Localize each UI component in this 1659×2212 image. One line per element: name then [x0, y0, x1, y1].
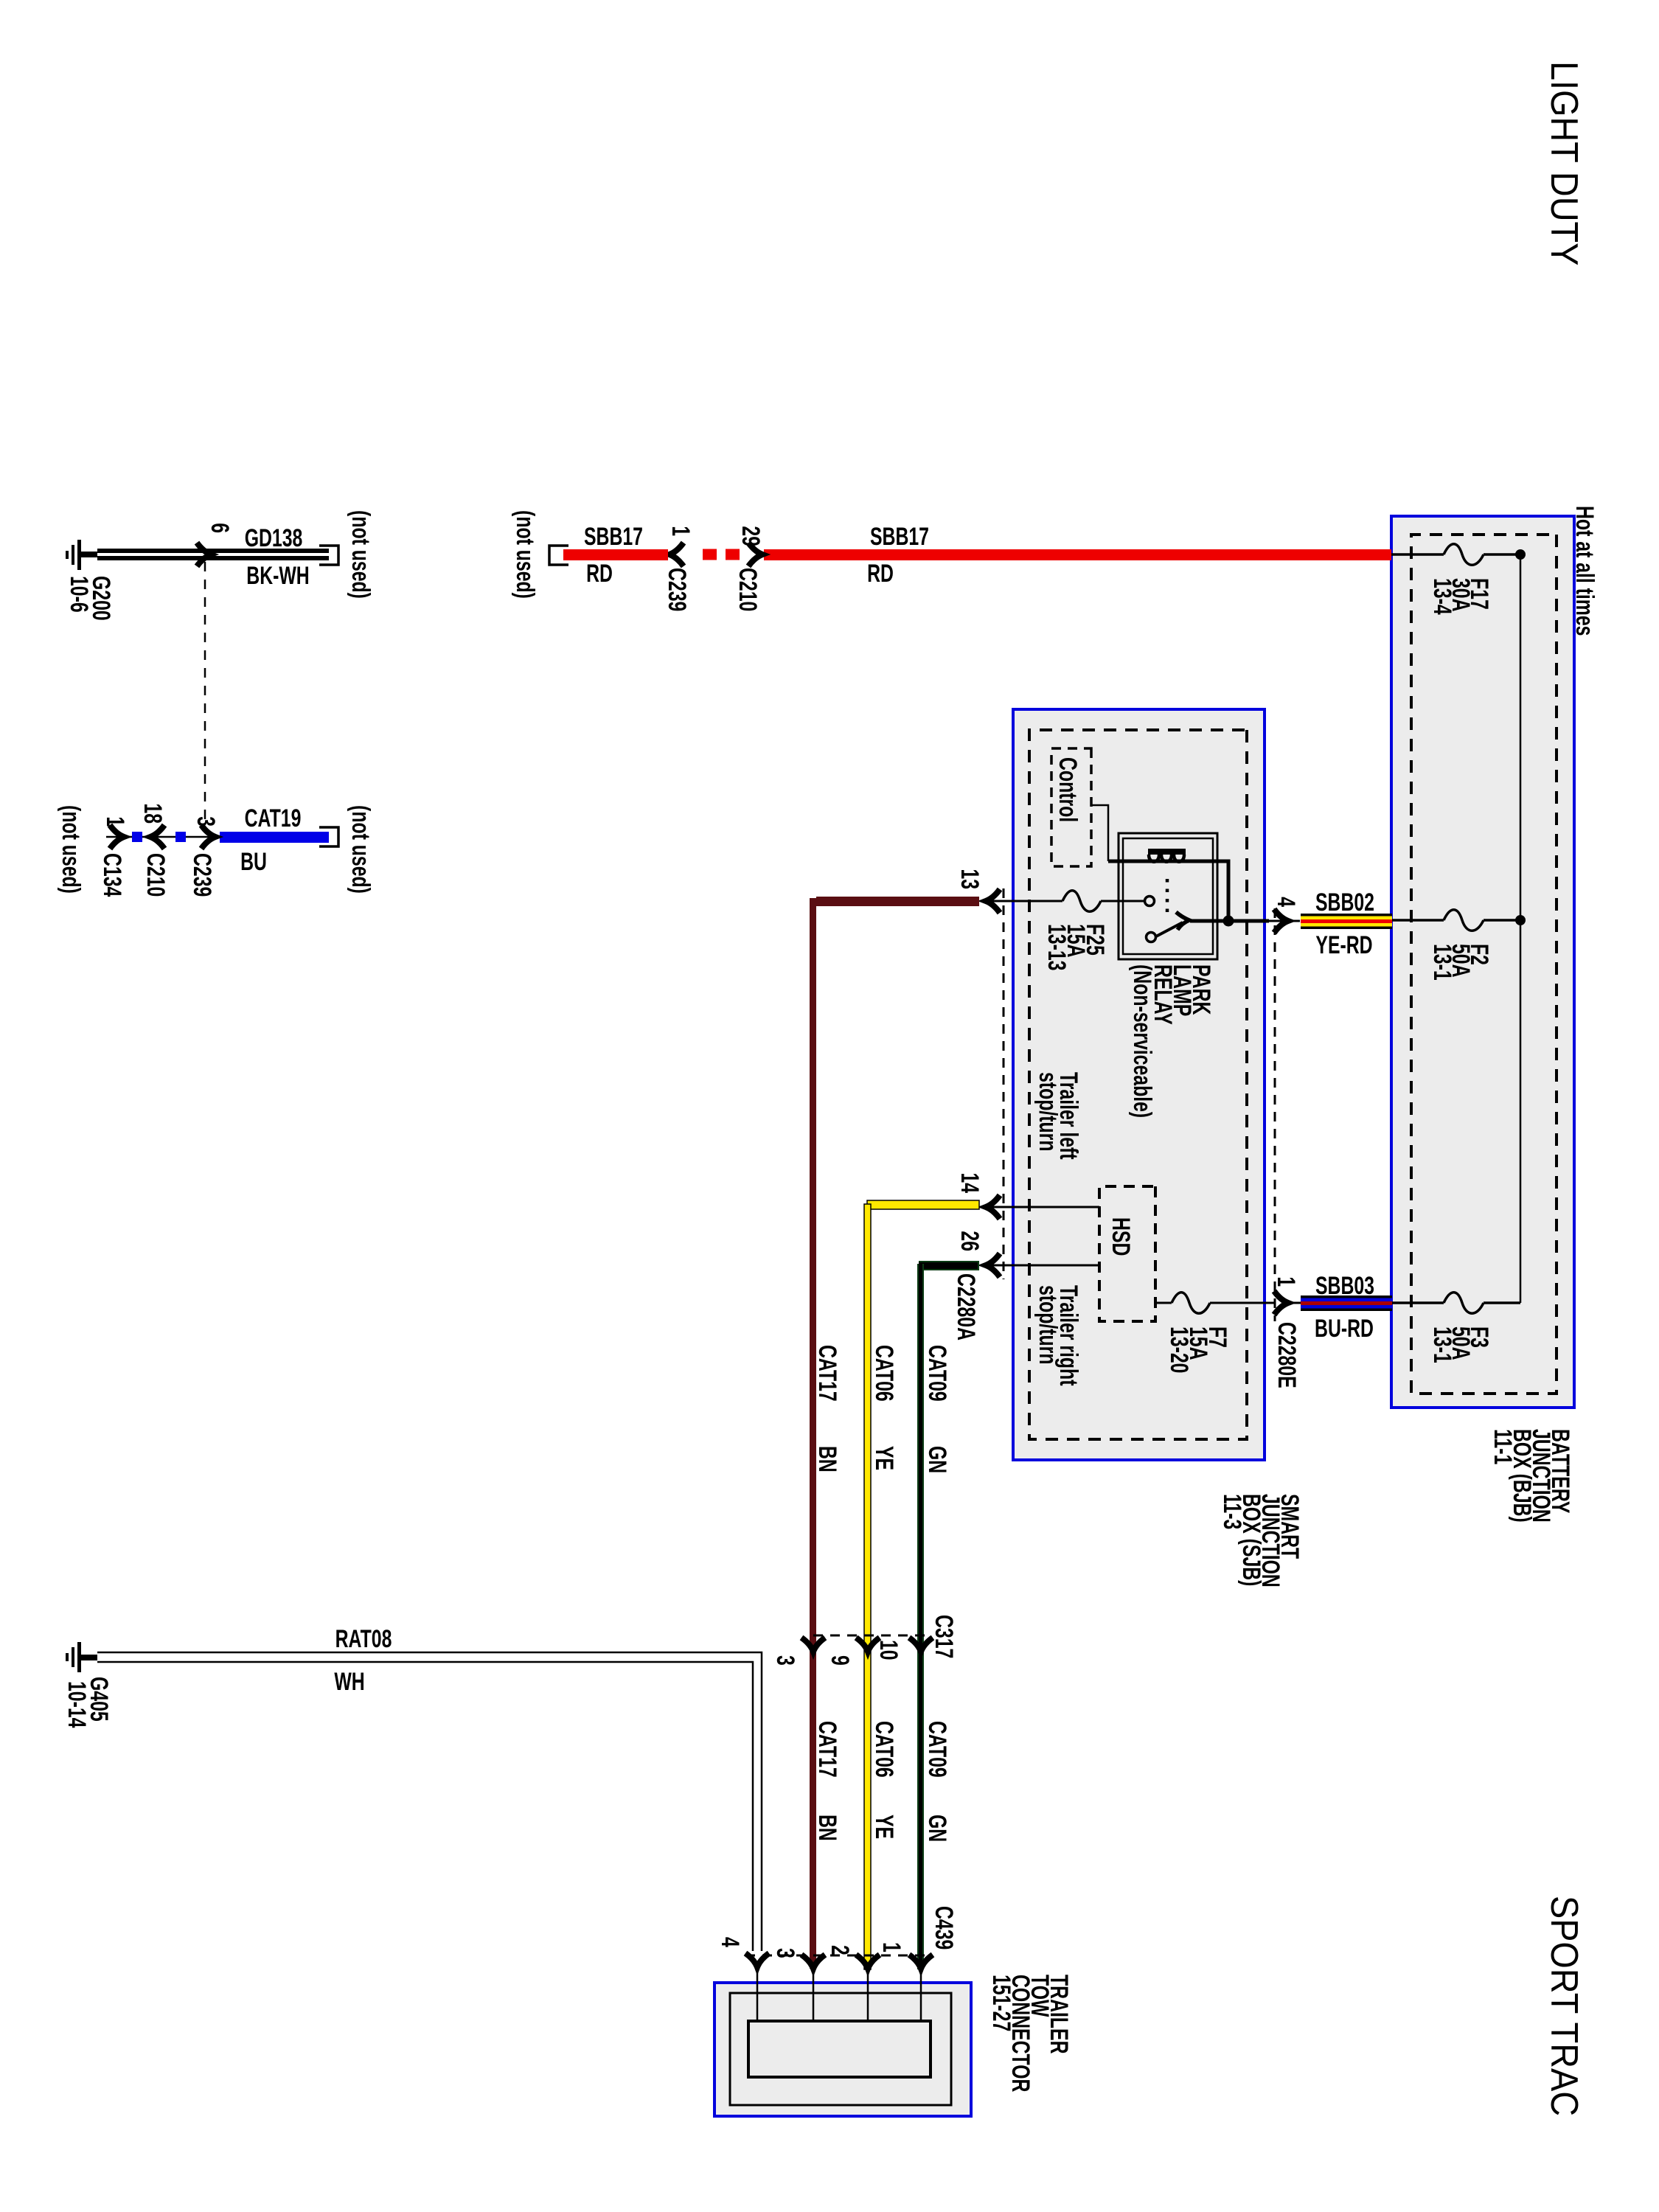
connector C239 arrow pin 3: [188, 816, 220, 897]
svg-text:13-13: 13-13: [1043, 924, 1071, 970]
node bus F17: [1515, 549, 1526, 560]
svg-text:3: 3: [771, 1948, 799, 1958]
connector C134 arrow pin 1: [57, 805, 129, 897]
svg-text:2: 2: [826, 1945, 854, 1955]
svg-text:C239: C239: [188, 853, 216, 897]
svg-text:CAT17: CAT17: [813, 1721, 841, 1778]
svg-text:C439: C439: [930, 1906, 958, 1950]
fuse F17 30A: [1391, 544, 1520, 615]
connector C2280A dashed: [952, 888, 1004, 1340]
svg-text:26: 26: [956, 1231, 984, 1251]
wire pin 14: [987, 1206, 1099, 1208]
wire CAT19 thin lower: [106, 836, 220, 838]
connector not used red end: [511, 510, 568, 599]
connector not used GD138 end: [319, 510, 375, 599]
svg-text:1: 1: [877, 1942, 905, 1952]
pin 14 arrow: [956, 1172, 1000, 1219]
wire bus inside BJB: [1520, 554, 1522, 1303]
HSD box: [1099, 1186, 1155, 1321]
svg-text:CAT06: CAT06: [870, 1345, 898, 1402]
fuse F25 15A: [987, 891, 1144, 971]
label PARK LAMP RELAY: [1128, 964, 1215, 1118]
svg-text:YE: YE: [870, 1815, 898, 1839]
wire into connector pin 3: [813, 1969, 815, 2021]
svg-text:CAT19: CAT19: [245, 804, 302, 832]
svg-text:stop/turn: stop/turn: [1034, 1072, 1062, 1151]
svg-text:C210: C210: [734, 568, 762, 611]
C439 arrow pin 2: [826, 1945, 880, 1969]
wire relay output: [1227, 919, 1269, 923]
svg-text:11-1: 11-1: [1489, 1429, 1517, 1464]
node relay output junction: [1223, 916, 1234, 927]
svg-text:C134: C134: [98, 853, 126, 897]
fuse F2 50A: [1391, 910, 1520, 981]
label Trailer right stop/turn: [1034, 1285, 1082, 1386]
svg-text:BU: BU: [240, 848, 267, 876]
pin 4 arrow RAT08: [716, 1937, 769, 1967]
connector C210 arrow pin 29: [734, 526, 765, 611]
node bus F2: [1515, 915, 1526, 925]
C439 arrow pin 1: [877, 1942, 933, 1969]
C317 arrow pin 3: [771, 1638, 825, 1666]
wire SBB17 RD lower segment: [563, 523, 668, 588]
fuse F3 50A: [1391, 1293, 1520, 1363]
splice arrow pin 6 on GD138: [197, 523, 234, 566]
label TRAILER TOW CONNECTOR 151-27: [987, 1975, 1073, 2092]
ground G405: [63, 1642, 113, 1728]
svg-text:BU-RD: BU-RD: [1315, 1315, 1374, 1343]
battery junction box BJB: [1391, 516, 1574, 1408]
relay park lamp box: [1119, 833, 1217, 959]
connector C210 arrow pin 18: [139, 803, 170, 897]
svg-text:CAT09: CAT09: [923, 1345, 951, 1402]
svg-text:1: 1: [101, 816, 129, 827]
svg-text:CAT06: CAT06: [870, 1721, 898, 1778]
svg-text:C317: C317: [930, 1615, 958, 1658]
svg-text:BN: BN: [813, 1446, 841, 1472]
pin 1 arrow SBB03: [1272, 1276, 1300, 1315]
svg-text:CAT17: CAT17: [813, 1345, 841, 1402]
label Hot at all times: [1571, 506, 1599, 636]
wire into connector pin 2: [867, 1969, 869, 2021]
svg-text:(not used): (not used): [347, 805, 375, 894]
wire SBB02 YE-RD: [1301, 888, 1392, 959]
svg-text:SPORT TRAC: SPORT TRAC: [1543, 1896, 1585, 2116]
svg-text:10: 10: [874, 1640, 902, 1660]
svg-text:RAT08: RAT08: [335, 1625, 392, 1653]
svg-text:SBB17: SBB17: [870, 523, 929, 551]
pin 4 arrow SBB02: [1269, 897, 1300, 933]
svg-text:29: 29: [737, 526, 765, 546]
label BATTERY JUNCTION BOX (BJB) 11-1: [1489, 1429, 1574, 1523]
svg-text:C210: C210: [142, 853, 170, 897]
svg-text:LIGHT DUTY: LIGHT DUTY: [1543, 61, 1585, 265]
svg-text:1: 1: [1272, 1276, 1300, 1287]
svg-text:BK-WH: BK-WH: [246, 562, 309, 590]
wire SBB03 BU-RD: [1287, 1272, 1392, 1343]
svg-text:9: 9: [826, 1655, 854, 1666]
label SMART JUNCTION BOX (SJB) 11-3: [1218, 1494, 1304, 1587]
wire RD inline dashed: [694, 549, 740, 560]
svg-text:13-20: 13-20: [1165, 1326, 1193, 1373]
svg-text:C2280E: C2280E: [1273, 1322, 1301, 1388]
wire dashed splice link: [204, 562, 206, 832]
svg-text:13-4: 13-4: [1428, 578, 1456, 615]
svg-text:(not used): (not used): [57, 805, 85, 894]
svg-text:13-1: 13-1: [1428, 944, 1456, 981]
svg-text:11-3: 11-3: [1218, 1494, 1246, 1529]
wire CAT09 GN: [917, 1261, 979, 1969]
svg-text:(not used): (not used): [347, 510, 375, 599]
svg-text:10-14: 10-14: [63, 1681, 91, 1728]
fuse F7 15A: [1155, 1293, 1275, 1374]
connector C317 dashed: [810, 1615, 958, 1658]
C439 arrow pin 3: [771, 1948, 825, 1969]
trailer tow connector box: [714, 1983, 971, 2116]
wire into connector pin 1: [920, 1969, 922, 2021]
title LIGHT DUTY: [1543, 61, 1585, 265]
svg-text:stop/turn: stop/turn: [1034, 1285, 1062, 1364]
svg-text:CAT09: CAT09: [923, 1721, 951, 1778]
connector C2280E dashed: [1273, 908, 1301, 1388]
svg-text:(not used): (not used): [511, 510, 539, 599]
svg-text:13: 13: [956, 869, 984, 889]
svg-text:RD: RD: [586, 560, 613, 588]
wire pin 26: [987, 1265, 1099, 1267]
connector C239 arrow pin 1: [663, 526, 695, 611]
C317 arrow pin 10: [874, 1638, 933, 1660]
connector not used CAT19 end: [319, 805, 375, 894]
svg-text:GN: GN: [923, 1446, 951, 1473]
svg-text:SBB03: SBB03: [1315, 1272, 1374, 1300]
wire CAT17 BN: [810, 897, 1029, 1969]
svg-text:RD: RD: [867, 560, 894, 588]
svg-text:YE-RD: YE-RD: [1315, 931, 1372, 959]
wire control link: [1091, 805, 1108, 861]
wire SBB17 RD upper segment: [764, 523, 1391, 588]
wire relay coil feed: [1108, 861, 1228, 921]
relay switch: [1145, 879, 1229, 942]
wire CAT06 YE: [864, 1200, 979, 1969]
splice square C210a: [175, 832, 186, 842]
title SPORT TRAC: [1543, 1896, 1585, 2116]
svg-text:HSD: HSD: [1107, 1217, 1135, 1256]
svg-text:WH: WH: [334, 1668, 364, 1696]
relay coil: [1148, 849, 1186, 862]
svg-text:Control: Control: [1054, 757, 1082, 822]
svg-text:14: 14: [956, 1172, 984, 1193]
svg-text:BN: BN: [813, 1815, 841, 1841]
label Trailer left stop/turn: [1034, 1072, 1082, 1160]
wire CAT19 BU: [220, 804, 329, 876]
svg-text:10-6: 10-6: [65, 576, 93, 613]
C317 arrow pin 9: [826, 1638, 880, 1666]
svg-text:C2280A: C2280A: [952, 1273, 980, 1340]
svg-text:13-1: 13-1: [1428, 1326, 1456, 1363]
connector C439 dashed: [745, 1906, 958, 1955]
svg-text:Hot at all times: Hot at all times: [1571, 506, 1599, 636]
svg-text:3: 3: [771, 1655, 799, 1666]
wire RAT08 WH: [97, 1625, 762, 1951]
pin 13 arrow: [956, 869, 1000, 913]
ground G200: [65, 540, 115, 621]
svg-text:GD138: GD138: [245, 524, 303, 552]
svg-text:4: 4: [716, 1937, 744, 1947]
pin 26 arrow: [956, 1231, 1000, 1277]
svg-text:18: 18: [139, 803, 167, 824]
svg-text:4: 4: [1272, 897, 1300, 907]
control box: [1051, 748, 1091, 866]
svg-text:3: 3: [192, 816, 220, 827]
wire into connector pin 4: [757, 1963, 759, 2021]
svg-text:GN: GN: [923, 1815, 951, 1842]
svg-text:1: 1: [667, 526, 695, 536]
smart junction box SJB: [1013, 709, 1265, 1460]
svg-text:151-27: 151-27: [987, 1975, 1015, 2031]
splice square C210b: [132, 832, 142, 842]
svg-text:6: 6: [206, 523, 234, 533]
svg-text:YE: YE: [870, 1446, 898, 1470]
svg-text:C239: C239: [663, 568, 691, 611]
wire GD138 BK-WH: [97, 524, 329, 590]
svg-text:(Non-serviceable): (Non-serviceable): [1128, 964, 1156, 1118]
svg-text:SBB17: SBB17: [584, 523, 643, 551]
svg-text:SBB02: SBB02: [1315, 888, 1374, 917]
